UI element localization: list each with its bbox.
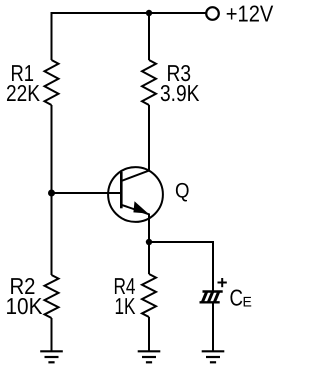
resistor R3 xyxy=(142,60,156,105)
svg-text:E: E xyxy=(243,293,252,309)
node emitter junction xyxy=(146,239,152,245)
transistor Q emitter diagonal xyxy=(121,205,149,215)
transistor Q base bar xyxy=(120,172,123,209)
svg-text:+12V: +12V xyxy=(226,1,274,27)
svg-text:22K: 22K xyxy=(6,80,41,106)
svg-text:Q: Q xyxy=(175,179,190,202)
terminal +12V xyxy=(206,7,219,20)
svg-text:1K: 1K xyxy=(115,293,136,319)
wire emitter to R4 xyxy=(148,242,150,274)
resistor R1 xyxy=(45,60,59,105)
resistor R4 xyxy=(142,274,156,317)
wire top supply rail xyxy=(52,12,206,14)
wire base lead xyxy=(52,192,122,194)
wire emitter lead xyxy=(148,214,150,243)
transistor Q emitter arrowhead xyxy=(133,201,148,213)
wire capacitor bottom lead xyxy=(212,303,214,352)
capacitor CE polarity plus sign xyxy=(218,278,227,287)
svg-text:3.9K: 3.9K xyxy=(160,80,200,106)
wire collector branch upper segment xyxy=(148,13,150,60)
svg-text:10K: 10K xyxy=(6,293,44,319)
node base junction xyxy=(48,190,55,197)
ground left xyxy=(40,351,63,362)
wire left branch middle segment xyxy=(51,105,53,275)
wire left branch upper segment xyxy=(51,12,53,60)
transistor Q collector diagonal xyxy=(121,171,149,181)
capacitor CE symbol xyxy=(200,292,223,303)
wire R4 to ground xyxy=(148,317,150,351)
transistor Q circle xyxy=(108,167,163,222)
ground right xyxy=(202,351,225,362)
ground middle xyxy=(138,351,161,362)
resistor R2 xyxy=(45,275,59,318)
wire left branch lower segment xyxy=(51,318,53,351)
node supply rail junction xyxy=(146,10,152,16)
wire emitter branch horizontal xyxy=(149,241,213,243)
wire collector lead xyxy=(148,105,150,172)
svg-text:C: C xyxy=(230,284,244,310)
wire capacitor top lead xyxy=(212,241,214,291)
